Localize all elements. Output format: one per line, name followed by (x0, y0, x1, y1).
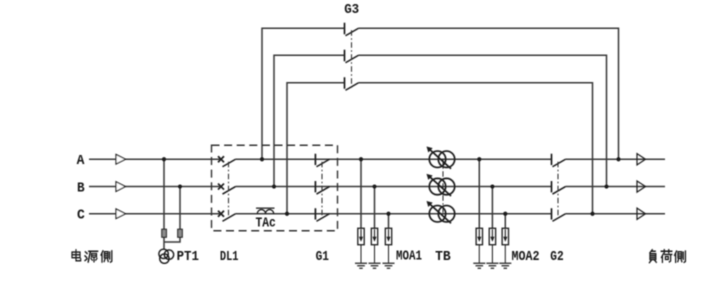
voltage transformer PT1 (159, 249, 174, 263)
breaker DL1 pole A (218, 156, 236, 167)
arrester MOA1 phase C (383, 228, 395, 268)
CT TAc arcs (256, 208, 275, 214)
label 负荷侧 (load side), hand-drawn glyphs (649, 250, 685, 263)
isolator G3 pole 3 (345, 77, 359, 90)
node C MOA1 (386, 212, 390, 216)
node C bypass right (590, 212, 594, 216)
svg-text:B: B (77, 180, 85, 196)
breaker cabinet dashed box (212, 145, 338, 231)
transformer TB phase A (427, 147, 455, 169)
transformer TB phase C (427, 201, 455, 223)
node A bypass right (616, 157, 620, 161)
node A bypass left (260, 157, 264, 161)
wire PT1 branch (164, 159, 180, 249)
node C bypass left (285, 212, 289, 216)
isolator G1 gang link (321, 162, 323, 218)
wire phase A main (89, 158, 665, 160)
node C MOA2 (503, 212, 507, 216)
fuse PT1 phase A (162, 229, 167, 237)
breaker DL1 pole B (218, 184, 236, 195)
svg-text:TAc: TAc (256, 216, 276, 232)
wire phase C main (89, 213, 665, 215)
arrow load B (637, 181, 646, 192)
transformer TB phase B (427, 174, 455, 196)
svg-text:G2: G2 (550, 249, 563, 265)
fuse PT1 phase B (178, 229, 183, 237)
svg-text:C: C (77, 208, 85, 224)
isolator G2 pole A (552, 154, 566, 167)
wire MOA1 taps (361, 159, 389, 228)
wire G3 bypass row 3 (phase C) (287, 83, 593, 214)
arrester MOA2 phase A (473, 228, 485, 268)
node B-PT1 (178, 184, 182, 188)
isolator G3 pole 1 (345, 23, 359, 36)
junction dots (162, 157, 621, 216)
arrow source A (116, 154, 126, 164)
svg-text:MOA2: MOA2 (512, 249, 540, 265)
node B MOA2 (490, 184, 494, 188)
node B bypass right (604, 184, 608, 188)
char 侧 (2) (675, 251, 686, 262)
arrow source C (116, 209, 126, 219)
transformer TB gang link (442, 159, 444, 214)
svg-text:G1: G1 (316, 249, 329, 265)
node A-PT1 (162, 157, 166, 161)
node B bypass left (272, 184, 276, 188)
breaker DL1 gang link (228, 162, 230, 218)
svg-text:PT1: PT1 (177, 249, 199, 265)
svg-text:G3: G3 (344, 2, 359, 18)
arrester MOA2 phase C (499, 228, 511, 268)
char 侧 (101, 251, 112, 262)
node A MOA2 (477, 157, 481, 161)
svg-text:MOA1: MOA1 (396, 249, 422, 265)
isolator G2 pole C (552, 208, 566, 221)
label 电源侧 (source side), hand-drawn glyphs (72, 250, 112, 262)
isolator G2 pole B (552, 181, 566, 194)
wire phase B main (89, 186, 665, 188)
char 荷 (661, 250, 672, 263)
arrow source B (116, 182, 126, 192)
wire G3 bypass row 2 (phase B) (274, 55, 607, 186)
char 源 (85, 251, 98, 262)
wire G3 bypass row 1 (phase A) (262, 28, 619, 159)
wire MOA2 taps (479, 159, 505, 228)
char 电 (72, 250, 81, 261)
char 负 (649, 250, 656, 263)
svg-text:A: A (77, 153, 85, 169)
arrow load C (637, 208, 646, 219)
isolator G1 pole B (315, 181, 329, 194)
isolator G2 gang link (557, 162, 559, 218)
isolator G1 pole A (315, 154, 329, 167)
node B MOA1 (372, 184, 376, 188)
svg-text:TB: TB (435, 249, 451, 265)
isolator G3 pole 2 (345, 50, 359, 63)
arrow load A (637, 154, 646, 165)
isolator G1 pole C (315, 208, 329, 221)
svg-text:DL1: DL1 (220, 249, 239, 265)
arrester MOA1 phase B (369, 228, 381, 268)
node A MOA1 (359, 157, 363, 161)
arrester MOA2 phase B (486, 228, 498, 268)
isolator G3 gang link (351, 30, 353, 88)
breaker DL1 pole C (218, 211, 236, 222)
arrester MOA1 phase A (355, 228, 367, 268)
